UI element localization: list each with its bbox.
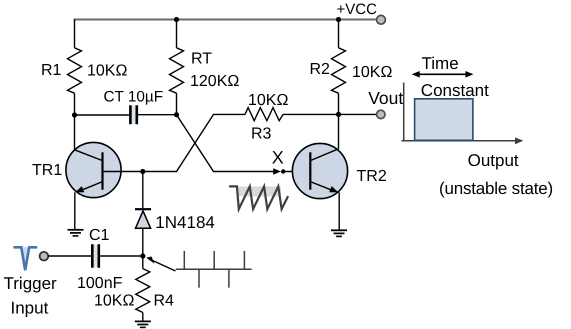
node junction Vout <box>336 112 341 117</box>
node junction TR1 base <box>140 169 145 174</box>
ground TR1 <box>68 230 84 236</box>
terminal +VCC <box>377 15 386 24</box>
svg-text:R4: R4 <box>154 293 175 310</box>
wire R4 to ground <box>142 312 144 320</box>
timing diagram x-axis arrowhead <box>515 137 523 144</box>
node junction RT-CT <box>174 112 179 117</box>
diode D1 1N4184 <box>135 209 151 228</box>
terminal Vout <box>377 110 385 118</box>
wire top VCC rail <box>74 19 377 21</box>
svg-text:Constant: Constant <box>421 81 489 100</box>
wire TR2 collector <box>338 114 340 148</box>
transistor TR2 <box>292 143 347 198</box>
svg-text:R1: R1 <box>41 62 62 79</box>
node junction R1-CT <box>72 112 77 117</box>
arrow into node X <box>273 168 281 175</box>
svg-text:CT 10µF: CT 10µF <box>104 89 164 106</box>
wire TR1 collector <box>74 115 76 150</box>
sawtooth waveform <box>229 186 288 209</box>
wire node to R4 <box>142 256 144 269</box>
sawtooth waveform shading <box>237 186 281 196</box>
svg-text:1N4184: 1N4184 <box>155 213 215 232</box>
wire node X to TR2 base <box>284 171 311 173</box>
svg-text:RT: RT <box>191 51 212 68</box>
resistor R1 <box>68 48 82 93</box>
wire R1 bottom <box>74 93 76 115</box>
svg-text:10KΩ: 10KΩ <box>87 63 127 80</box>
arrow pointing to trigger node <box>146 257 175 272</box>
node junction top R2 <box>336 17 341 22</box>
wire diode to trigger node <box>142 228 144 256</box>
wire RT bottom <box>176 93 178 115</box>
ground TR2 <box>331 230 347 236</box>
svg-text:10KΩ: 10KΩ <box>248 92 288 109</box>
svg-text:Input: Input <box>11 299 49 318</box>
svg-text:120KΩ: 120KΩ <box>190 73 239 90</box>
svg-text:TR2: TR2 <box>357 168 387 185</box>
resistor RT <box>170 48 184 93</box>
transistor TR1 <box>66 142 143 197</box>
wire R2 bottom to Vout node <box>338 93 340 114</box>
wire RT branch top <box>176 20 178 48</box>
svg-text:Output: Output <box>468 151 519 170</box>
svg-text:+VCC: +VCC <box>337 1 378 18</box>
wire R1 branch top <box>74 20 76 48</box>
svg-text:Time: Time <box>422 54 459 73</box>
wire to Vout terminal <box>339 113 377 115</box>
svg-text:(unstable state): (unstable state) <box>439 179 553 198</box>
svg-text:100nF: 100nF <box>77 275 123 292</box>
wire R2 branch top <box>338 20 340 48</box>
trigger pulse train comb <box>176 251 252 288</box>
time constant double arrow <box>412 71 474 78</box>
svg-text:R2: R2 <box>310 61 331 78</box>
svg-text:R3: R3 <box>251 126 272 143</box>
ground R4 <box>135 321 151 327</box>
resistor R4 <box>136 269 150 313</box>
timing diagram axes <box>402 83 518 141</box>
svg-text:Trigger: Trigger <box>4 274 58 293</box>
node junction top RT <box>174 17 179 22</box>
wire TR2 emitter <box>338 192 340 229</box>
wire TR1 emitter <box>74 192 76 229</box>
svg-text:Vout: Vout <box>368 88 403 108</box>
wire CT left <box>75 114 130 116</box>
node junction trigger/R4 <box>140 253 145 258</box>
svg-text:10KΩ: 10KΩ <box>94 293 134 310</box>
resistor R3 <box>245 108 283 121</box>
wire R3 to Vout node <box>283 113 338 115</box>
svg-text:X: X <box>272 148 284 168</box>
capacitor C1 <box>92 244 99 268</box>
wire C1 to node <box>100 255 143 257</box>
svg-text:TR1: TR1 <box>32 162 62 179</box>
timing diagram pulse rect <box>415 99 473 141</box>
capacitor CT <box>130 105 136 124</box>
terminal trigger input <box>40 252 49 261</box>
svg-text:C1: C1 <box>89 227 110 244</box>
wire trigger to C1 <box>48 255 91 257</box>
wire TR1 base to R3 <box>143 114 245 171</box>
svg-text:10KΩ: 10KΩ <box>352 64 392 81</box>
wire TR1 base node down to diode <box>142 172 144 209</box>
node X junction <box>281 169 285 173</box>
wire CT right <box>138 114 177 116</box>
trigger pulse symbol <box>14 247 38 270</box>
wire cross-couple from RT node down to TR2 base <box>177 115 277 172</box>
resistor R2 <box>332 48 346 93</box>
